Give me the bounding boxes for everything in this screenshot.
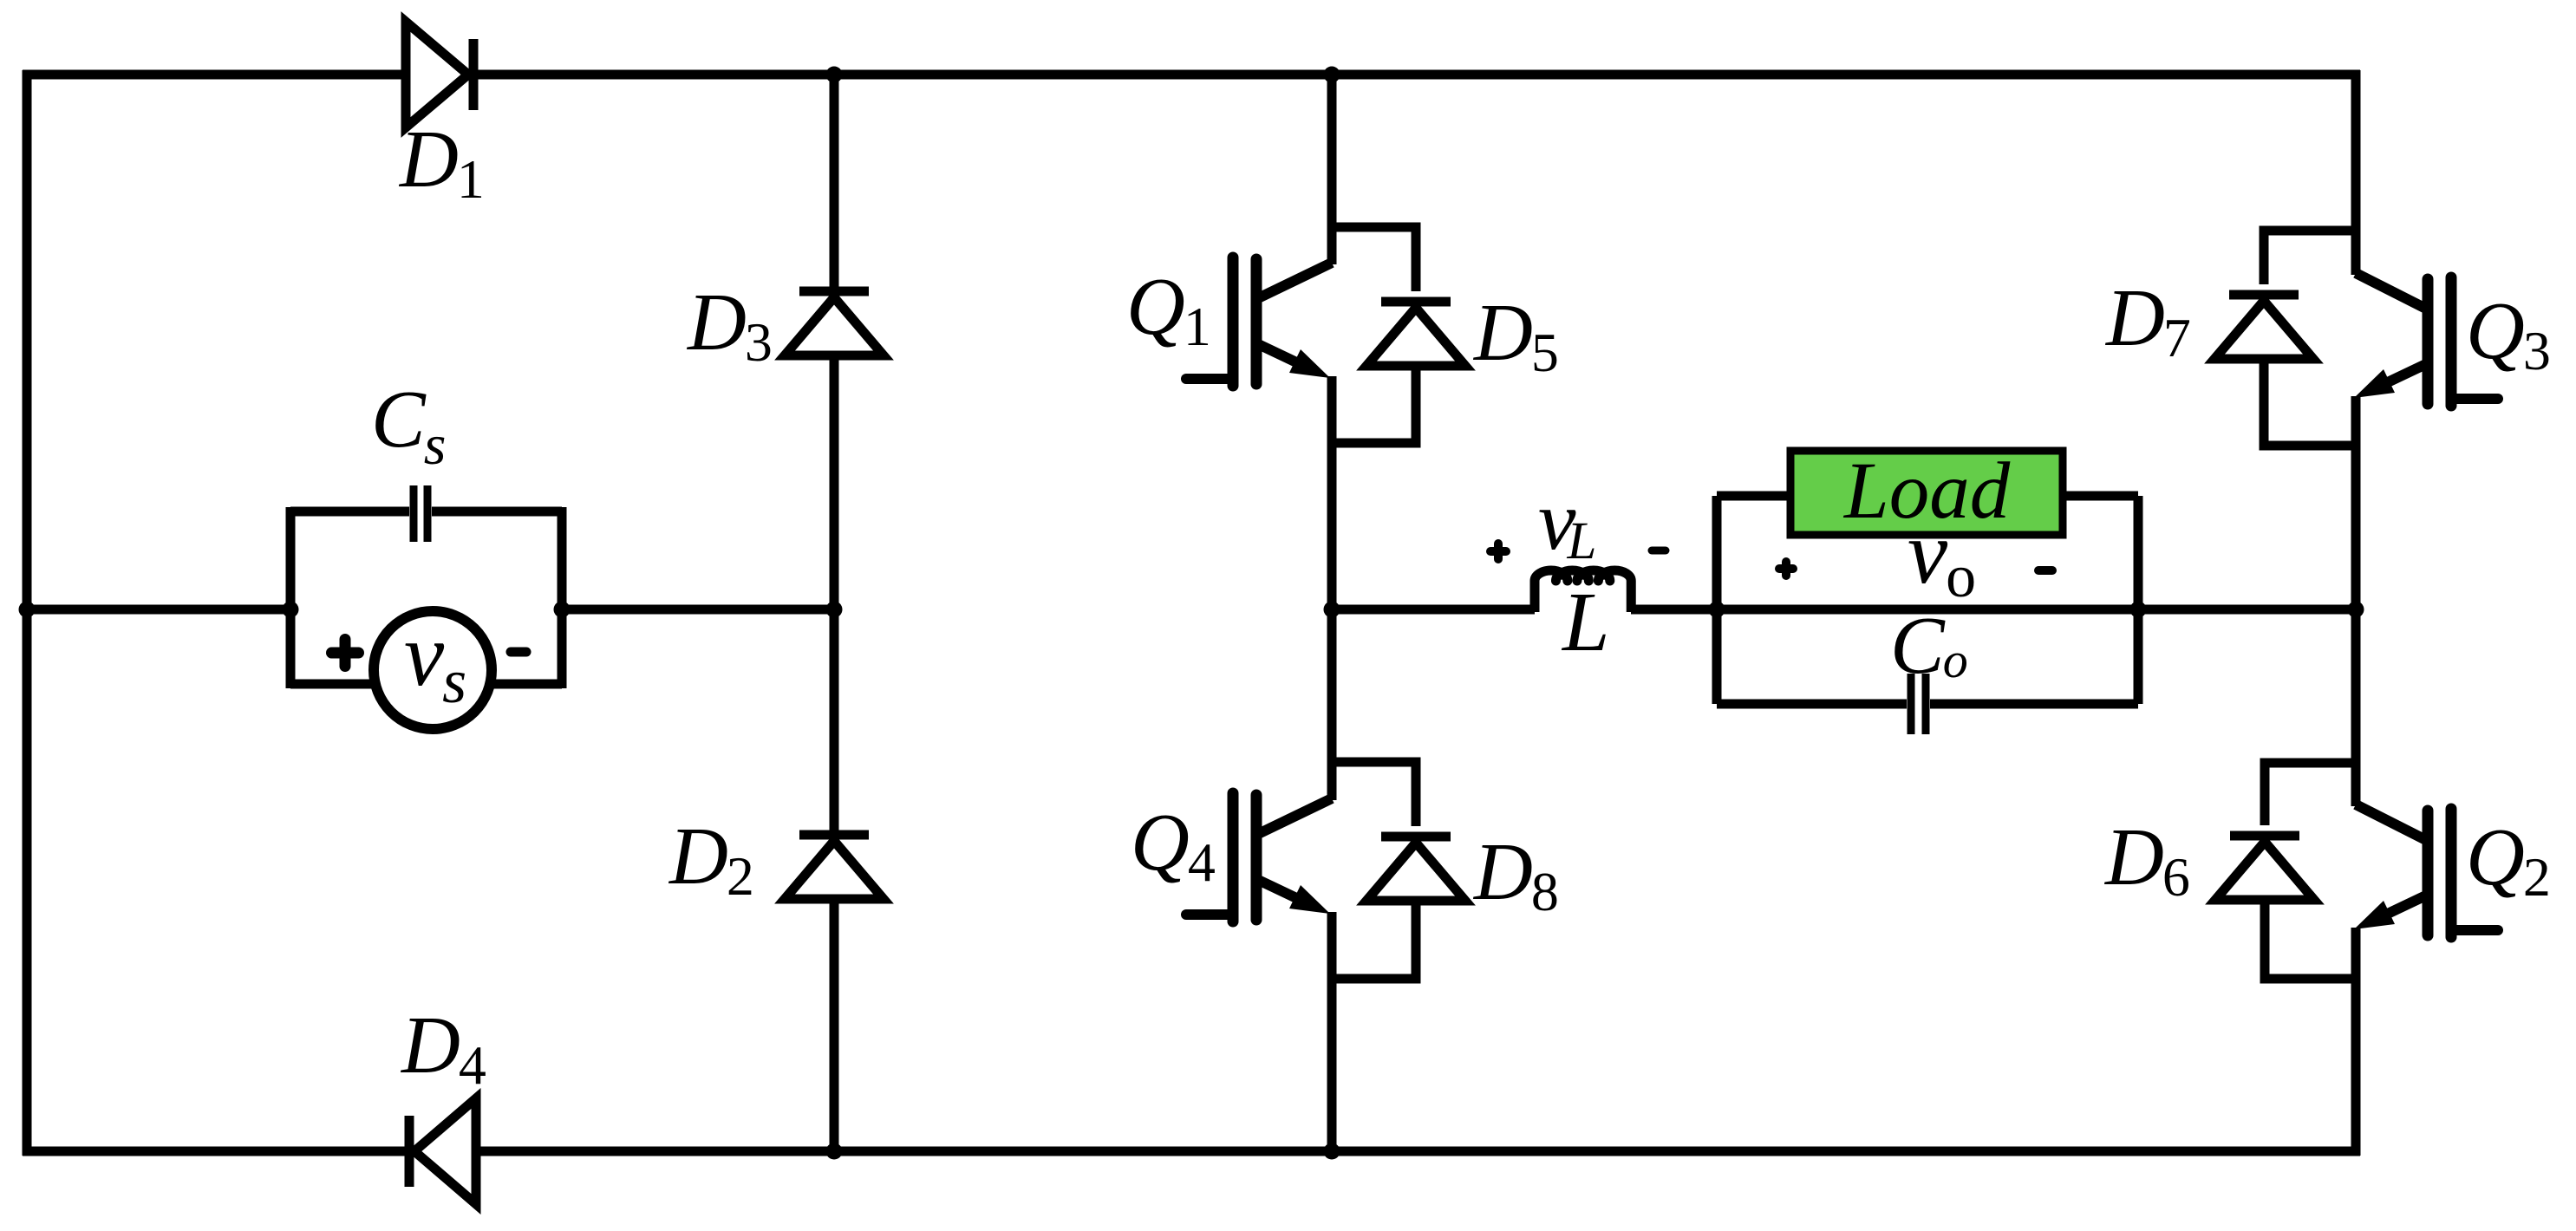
wire D3 branch upper segment [830,75,839,291]
wire top rail right segment [473,70,2360,80]
transistor Q2 gate lead [2451,925,2498,935]
wire D6 bottom branch [2265,900,2356,979]
load box [1790,451,2063,535]
transistor Q3 collector slant [2356,273,2428,309]
label D5 [1472,288,1559,383]
wire Q2 emitter vertical to bottom rail [2351,928,2361,1156]
wire bottom rail right segment [476,1147,2360,1156]
diode D5 [1366,302,1465,366]
label D6 [2103,812,2190,908]
wire D6 top branch [2265,763,2356,825]
inductor L [1535,570,1631,612]
svg-text:Cs: Cs [371,375,446,477]
wire D8 top branch [1332,762,1416,826]
svg-text:Q4: Q4 [1131,798,1216,893]
source vs circle [374,611,492,729]
diode D3 [785,291,884,355]
wire top rail left segment [23,70,406,80]
minus sign of vo [2038,566,2052,575]
wire between D3 and D2 [830,355,839,835]
svg-text:D6: D6 [2103,812,2190,908]
label D2 [668,811,754,907]
svg-text:Co: Co [1890,601,1968,691]
svg-text:D7: D7 [2104,273,2191,368]
label vL [1538,474,1596,570]
diode D8 [1366,837,1465,901]
svg-text:Q2: Q2 [2466,812,2551,908]
wire mid rail from source loop to D3-D2 branch [562,605,834,615]
transistor Q4 collector slant [1256,798,1332,835]
label vs [404,605,466,716]
svg-text:D2: D2 [668,811,754,907]
svg-text:L: L [1561,576,1610,669]
label D1 [398,114,485,210]
label L [1561,576,1610,669]
transistor Q2 gate bar [2446,809,2457,937]
label D7 [2104,273,2191,368]
wire load loop top-left segment [1717,492,1791,501]
svg-text:D3: D3 [686,277,773,373]
diode D7 [2214,295,2313,359]
minus sign of vs [511,648,526,657]
svg-text:D5: D5 [1472,288,1559,383]
svg-text:Q1: Q1 [1126,262,1211,357]
wire load loop top-right segment [2062,492,2138,501]
label Cs [371,375,446,477]
plus sign of vL [1490,544,1506,559]
wire Q3 emitter vertical to mid node [2351,396,2361,609]
diode D6 [2215,836,2314,900]
transistor Q2 body bar [2423,811,2434,935]
label Load [1842,446,2011,536]
wire left rail [23,70,32,1156]
label vo [1908,503,1976,610]
transistor Q3 gate bar [2446,277,2457,406]
label Q4 [1131,798,1216,893]
transistor Q2 collector slant [2356,804,2428,841]
wire bottom rail left segment [23,1147,405,1156]
label D3 [686,277,773,373]
transistor Q4 body bar [1251,795,1262,920]
wire Cs loop left vertical [286,507,296,688]
transistor Q1 body bar [1251,259,1262,384]
svg-text:D8: D8 [1472,827,1559,922]
wire mid rail from inductor to right leg [1631,605,2356,615]
wire D2 branch lower segment [830,899,839,1151]
diode D1 [406,22,473,127]
transistor Q3 gate lead [2451,394,2498,404]
wire Q1 collector vertical [1327,75,1337,264]
diode D2 [785,835,884,899]
wire D8 bottom branch [1332,901,1416,979]
wire D7 bottom branch [2264,359,2356,446]
transistor Q1 gate bar [1228,257,1239,386]
wire Q4 emitter vertical to bottom rail [1327,912,1337,1151]
transistor Q2 emitter arrow [2354,895,2428,929]
label Q3 [2466,286,2551,381]
wire load loop left vertical [1712,496,1722,704]
transistor Q1 collector slant [1256,263,1332,299]
plus sign of vo [1779,562,1793,576]
label Q1 [1126,262,1211,357]
wire Co loop bottom-right segment [1930,700,2138,709]
wire D7 top branch [2264,231,2356,284]
label Co [1890,601,1968,691]
capacitor Cs plates [414,485,427,542]
transistor Q1 gate lead [1186,374,1233,384]
svg-text:D1: D1 [398,114,485,210]
wire Q3 collector vertical [2351,70,2361,275]
wire vs loop bottom side [290,680,562,689]
label Q2 [2466,812,2551,908]
wire mid rail from Q-leg to inductor [1332,605,1535,615]
svg-text:D4: D4 [400,1000,486,1096]
transistor Q4 gate bar [1228,793,1239,922]
wire mid rail from left rail to source loop [27,605,290,615]
svg-text:vL: vL [1538,474,1596,570]
plus sign of vs [332,640,359,667]
wire D5 top branch [1332,227,1416,291]
wire Cs loop top side [290,507,562,517]
label D4 [400,1000,486,1096]
wire Q4 collector vertical [1327,609,1337,800]
wire D5 bottom branch [1332,366,1416,443]
transistor Q4 gate lead [1186,909,1233,920]
wire Q1 emitter vertical to mid node [1327,376,1337,609]
wire Q2 collector vertical [2351,609,2361,806]
svg-text:Q3: Q3 [2466,286,2551,381]
wire Cs loop right vertical [558,507,567,688]
transistor Q1 emitter arrow [1256,343,1330,378]
minus sign of vL [1652,547,1666,555]
transistor Q3 emitter arrow [2354,363,2428,398]
wire Co loop bottom-left segment [1717,700,1907,709]
capacitor Co plates [1911,674,1926,734]
transistor Q4 emitter arrow [1256,879,1330,914]
wire load loop right vertical [2134,496,2143,704]
diode D4 [409,1098,476,1204]
transistor Q3 body bar [2423,279,2434,404]
label D8 [1472,827,1559,922]
